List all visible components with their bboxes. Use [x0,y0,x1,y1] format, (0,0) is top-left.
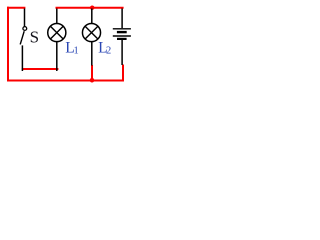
wire: right vertical red (to battery negative) [122,65,124,82]
lamp L1 [48,9,66,72]
battery B1 [113,9,131,66]
wire: bottom rail red [7,80,124,82]
lamp L2 [82,9,100,66]
node: bottom rail junction at L2 branch [90,78,95,83]
svg-text:1: 1 [74,46,79,57]
wire: L2 bottom red wire [91,65,93,80]
wire: middle red wire (switch bottom to L1 bottom) [22,68,59,70]
switch S [20,9,26,72]
svg-text:S: S [30,28,39,47]
node: top rail junction at L2 branch [90,6,94,10]
wire: top-left segment red (corner to switch top) [7,7,25,9]
svg-text:2: 2 [106,46,111,57]
wire: left border red [7,7,9,82]
wire: top rail red (L1 top to battery positive) [56,7,124,9]
